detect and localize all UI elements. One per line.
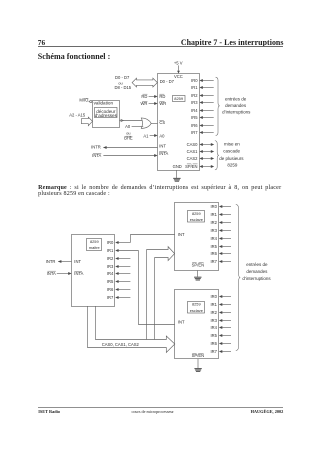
svg-text:cascade: cascade <box>223 149 240 154</box>
pin WR of U1 <box>159 101 166 106</box>
brace cascade pins U1 <box>215 141 219 170</box>
IC U1 8259 body <box>158 74 200 171</box>
svg-text:SP/EN: SP/EN <box>192 353 204 358</box>
svg-text:IR0: IR0 <box>107 240 114 245</box>
svg-text:esclave: esclave <box>190 217 203 222</box>
U2 internal label 8259 maitre <box>87 239 102 251</box>
svg-text:maitre: maitre <box>89 245 100 250</box>
svg-text:IR1: IR1 <box>107 248 114 253</box>
svg-text:IR3: IR3 <box>191 100 198 105</box>
address bus label A2-A15 <box>69 113 86 118</box>
svg-text:entrées de: entrées de <box>246 262 268 267</box>
label entrees de demandes d'interruptions <box>222 96 251 114</box>
svg-text:INT: INT <box>178 232 185 237</box>
footer center <box>132 410 174 414</box>
section title <box>38 53 111 61</box>
signal RD external <box>141 94 157 99</box>
signal A0 ou BHE <box>124 124 143 140</box>
signal A1 <box>143 134 157 139</box>
svg-text:+5 V: +5 V <box>174 60 183 65</box>
svg-text:RD: RD <box>159 94 165 99</box>
svg-text:8259: 8259 <box>192 211 201 216</box>
svg-text:IR7: IR7 <box>210 349 217 354</box>
svg-text:IR1: IR1 <box>210 302 217 307</box>
svg-text:INTR: INTR <box>91 145 101 150</box>
CAS bus channel wire with block arrow to U4 <box>88 306 175 353</box>
power +5V <box>174 60 183 73</box>
svg-text:IR0: IR0 <box>210 204 217 209</box>
signal WR external <box>140 101 157 106</box>
data bus label D0-D7 ou D8-D15 <box>115 75 132 90</box>
pin INT of U3 <box>178 232 185 237</box>
svg-text:INT: INT <box>159 144 166 149</box>
CAS bus branch block arrow to U3 <box>147 247 175 340</box>
svg-text:IR2: IR2 <box>210 310 217 315</box>
svg-text:IR0: IR0 <box>210 294 217 299</box>
svg-text:IR6: IR6 <box>107 287 114 292</box>
U1 cascade pins CAS0-CAS2 SP/EN wires <box>185 142 214 169</box>
U3 internal label 8259 esclave <box>188 211 205 223</box>
svg-text:INT: INT <box>178 320 185 325</box>
svg-text:IR4: IR4 <box>210 325 217 330</box>
svg-text:CAS0: CAS0 <box>187 142 199 147</box>
svg-text:demandes: demandes <box>246 269 268 274</box>
header rule <box>38 45 284 48</box>
IC U2 8259 maitre body <box>72 235 115 307</box>
footer right <box>251 410 284 414</box>
pin A0 of U1 <box>159 134 165 139</box>
U3 pins IR0-IR7 stubs <box>210 204 231 264</box>
U4 internal label 8259 esclave <box>188 302 205 314</box>
svg-text:8259: 8259 <box>90 239 99 244</box>
svg-text:IR7: IR7 <box>210 259 217 264</box>
svg-text:CAS0, CAS1, CAS2: CAS0, CAS1, CAS2 <box>102 342 140 347</box>
wire IR1 to slave2 INT <box>139 251 175 325</box>
pin INTA of U2 <box>74 271 83 276</box>
svg-text:A1: A1 <box>143 134 149 139</box>
svg-text:8259: 8259 <box>192 302 201 307</box>
pin D0-D7 of U1 <box>160 79 175 84</box>
brace interrupt inputs U1 <box>216 77 220 135</box>
svg-text:IR2: IR2 <box>107 256 114 261</box>
svg-text:GND: GND <box>173 164 182 169</box>
svg-text:D8 - D15: D8 - D15 <box>115 85 132 90</box>
remarque paragraph line 2 <box>38 191 110 197</box>
svg-text:validation: validation <box>94 100 114 105</box>
pin RD of U1 <box>159 94 165 99</box>
svg-text:IR5: IR5 <box>210 333 217 338</box>
svg-text:CAS1: CAS1 <box>187 149 199 154</box>
svg-text:IR4: IR4 <box>210 236 217 241</box>
label entrees de demandes d'interruptions cascade <box>242 262 271 281</box>
brace interrupt inputs cascade <box>236 204 240 350</box>
svg-text:IR3: IR3 <box>210 228 217 233</box>
svg-text:IR6: IR6 <box>210 341 217 346</box>
svg-text:de plusieurs: de plusieurs <box>219 156 244 161</box>
footer rule <box>38 406 284 409</box>
U1 internal label 8259 <box>173 96 186 102</box>
svg-text:WR: WR <box>140 101 147 106</box>
pin INT of U4 <box>178 320 185 325</box>
validation box <box>93 100 120 127</box>
svg-text:IR7: IR7 <box>107 295 114 300</box>
footer left <box>38 410 60 414</box>
svg-text:demandes: demandes <box>225 103 247 108</box>
pin GND of U1 <box>173 164 182 169</box>
data bus double arrow wire <box>132 78 157 87</box>
svg-text:IR4: IR4 <box>191 108 198 113</box>
svg-text:IR3: IR3 <box>210 318 217 323</box>
signal INTA wire to U2 <box>47 271 72 276</box>
svg-text:entrées de: entrées de <box>225 96 247 101</box>
IC U3 8259 esclave top body <box>175 203 219 271</box>
svg-text:IR5: IR5 <box>107 279 114 284</box>
svg-text:M/IO: M/IO <box>79 97 89 102</box>
svg-text:IR7: IR7 <box>191 130 198 135</box>
page number <box>38 39 45 46</box>
ground below U1 <box>173 170 180 181</box>
address bus block arrow <box>81 117 92 126</box>
svg-text:IR5: IR5 <box>210 244 217 249</box>
signal INTR wire <box>91 145 157 150</box>
svg-text:IR4: IR4 <box>107 271 114 276</box>
chapter header <box>181 39 284 47</box>
svg-text:IR6: IR6 <box>210 251 217 256</box>
svg-text:WR: WR <box>159 101 166 106</box>
pin SP/EN of U3 <box>192 263 204 268</box>
svg-text:A2 - A15: A2 - A15 <box>69 113 86 118</box>
svg-text:IR2: IR2 <box>210 220 217 225</box>
address decoder box <box>95 108 118 119</box>
svg-text:d’interruptions: d’interruptions <box>222 110 251 115</box>
svg-text:INTR: INTR <box>46 259 56 264</box>
svg-text:IR0: IR0 <box>191 78 198 83</box>
svg-text:IR1: IR1 <box>191 85 198 90</box>
OR gate <box>141 118 151 128</box>
decoder output wire <box>120 119 143 122</box>
svg-text:A0: A0 <box>159 134 165 139</box>
pin INT of U2 <box>74 259 81 264</box>
pin VCC of U1 <box>174 74 183 79</box>
label mise en cascade de plusieurs 8259 <box>219 141 244 167</box>
signal INTR wire to U2 <box>46 259 72 264</box>
inverter bubble <box>90 100 92 102</box>
svg-text:8259: 8259 <box>227 163 238 168</box>
pin INT of U1 <box>159 144 166 149</box>
svg-text:IR3: IR3 <box>107 264 114 269</box>
svg-text:RD: RD <box>141 94 147 99</box>
U1 right pins IR0-IR7 wires <box>191 78 214 135</box>
svg-text:8259: 8259 <box>174 96 184 101</box>
svg-text:D0 - D7: D0 - D7 <box>160 79 175 84</box>
svg-text:IR6: IR6 <box>191 123 198 128</box>
svg-text:SP/EN: SP/EN <box>185 164 197 169</box>
svg-text:IR5: IR5 <box>191 115 198 120</box>
svg-text:IR1: IR1 <box>210 212 217 217</box>
U4 pins IR0-IR7 stubs <box>210 294 231 354</box>
svg-text:mise en: mise en <box>224 141 240 146</box>
wire OR output to CS <box>151 123 158 125</box>
CAS bus label <box>102 342 140 347</box>
ground below U4 <box>194 359 201 372</box>
svg-text:esclave: esclave <box>190 308 203 313</box>
IC U4 8259 esclave bottom body <box>175 290 219 359</box>
svg-text:IR2: IR2 <box>191 93 198 98</box>
svg-text:CAS2: CAS2 <box>187 156 199 161</box>
ground below U3 <box>194 270 201 280</box>
svg-text:A0: A0 <box>125 124 131 129</box>
svg-text:d’interruptions: d’interruptions <box>242 276 271 281</box>
svg-text:SP/EN: SP/EN <box>192 263 204 268</box>
svg-text:d’adresses: d’adresses <box>95 113 118 118</box>
wire IR0 to slave1 INT <box>131 235 175 243</box>
svg-text:VCC: VCC <box>174 74 183 79</box>
pin SP/EN of U4 <box>192 353 204 358</box>
remarque paragraph line 1 <box>38 185 281 191</box>
pin INTA of U1 <box>159 151 168 156</box>
svg-text:INTA: INTA <box>159 151 168 156</box>
svg-text:D0 - D7: D0 - D7 <box>115 75 130 80</box>
signal INTA wire <box>92 153 157 158</box>
svg-text:INT: INT <box>74 259 81 264</box>
svg-text:INTA: INTA <box>47 271 56 276</box>
U2 pins IR0-IR7 stubs <box>107 240 139 300</box>
pin CS of U1 <box>159 120 165 125</box>
signal M/IO <box>79 97 89 102</box>
